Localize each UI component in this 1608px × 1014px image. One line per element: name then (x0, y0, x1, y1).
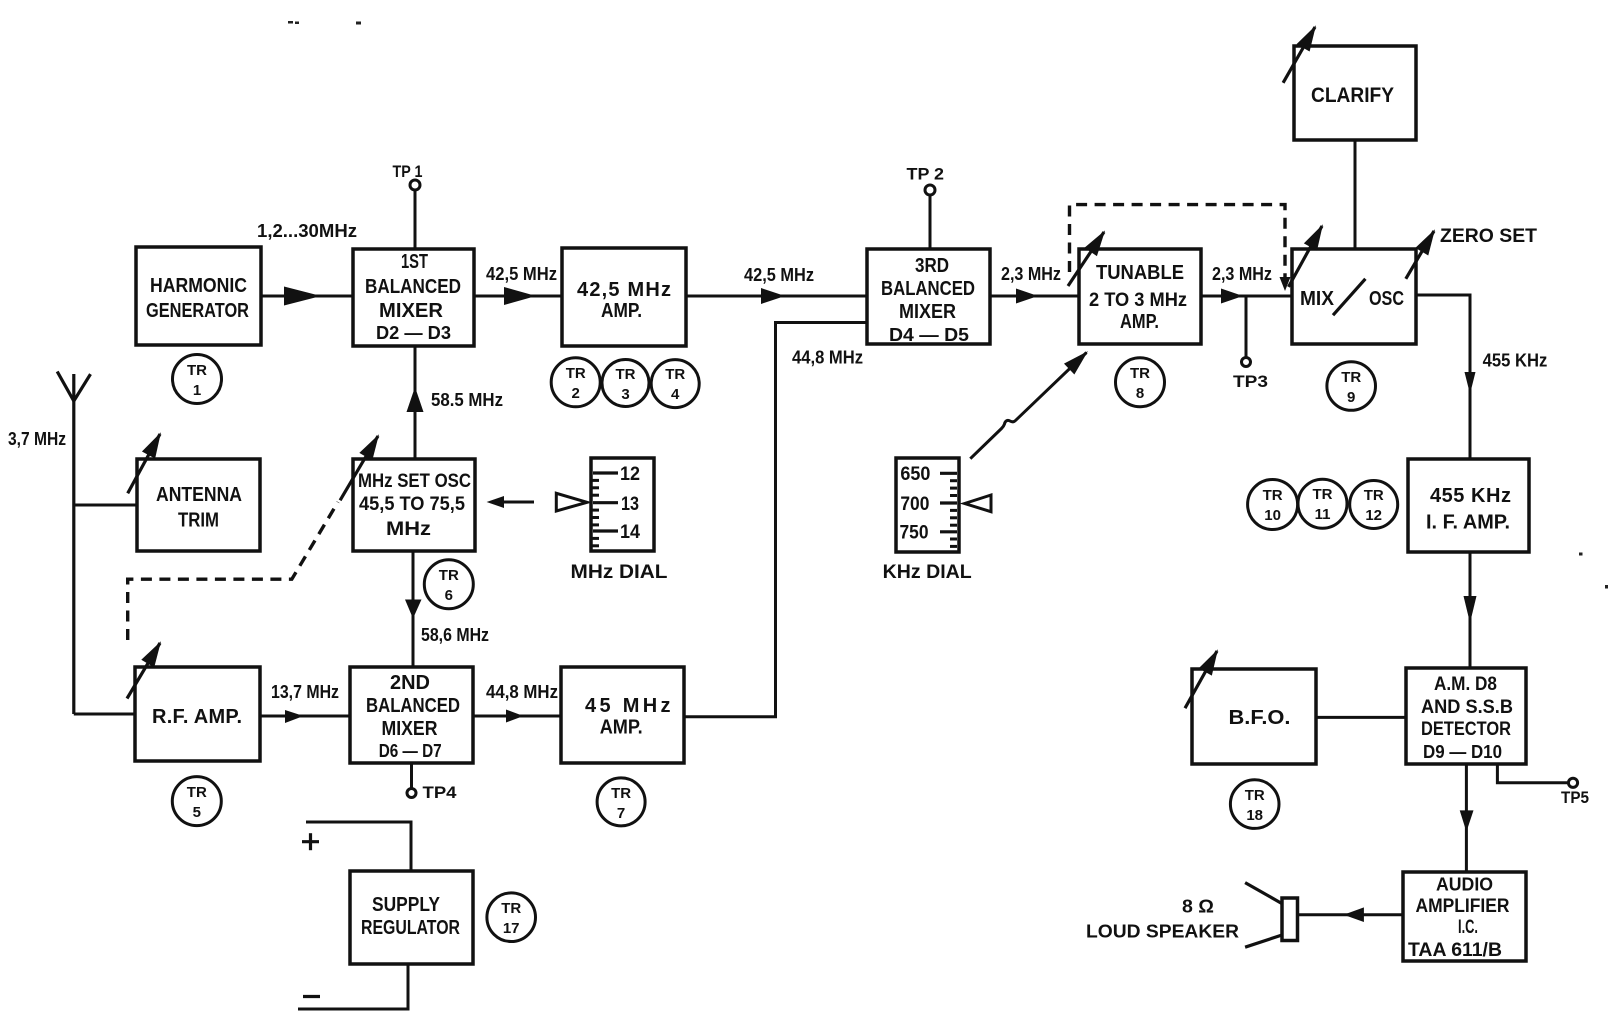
svg-text:DETECTOR: DETECTOR (1421, 719, 1511, 740)
svg-text:3RD: 3RD (915, 255, 949, 277)
transistor circle TR1 (173, 355, 222, 404)
svg-text:I.C.: I.C. (1458, 917, 1478, 938)
test point TP2 (907, 165, 945, 196)
svg-text:TR: TR (1341, 369, 1361, 386)
svg-text:D9 — D10: D9 — D10 (1423, 742, 1502, 762)
MHz dial numbers (620, 464, 640, 543)
svg-text:5: 5 (193, 804, 201, 821)
MHz dial open pointer (556, 493, 587, 511)
svg-text:TR: TR (1364, 487, 1384, 504)
block TUNABLE 2 TO 3 MHz AMP (1079, 249, 1201, 344)
svg-text:1: 1 (193, 382, 201, 399)
svg-text:TR: TR (439, 567, 459, 584)
svg-text:TP4: TP4 (423, 783, 458, 802)
svg-text:A.M. D8: A.M. D8 (1434, 674, 1497, 695)
transistor circle TR9 (1327, 362, 1376, 411)
svg-text:MIXER: MIXER (379, 300, 444, 322)
svg-text:TR: TR (1245, 787, 1265, 804)
svg-text:I. F. AMP.: I. F. AMP. (1426, 512, 1510, 534)
wire tunable amp to mix/osc (1201, 289, 1292, 304)
test point TP5 (1561, 778, 1589, 807)
label 45 MHz AMP (585, 695, 671, 739)
transistor circle TR3 (602, 360, 649, 407)
transistor circle TR18 (1230, 780, 1279, 829)
svg-text:TR: TR (566, 365, 586, 382)
transistor circle TR4 (651, 360, 699, 408)
test point TP3 (1233, 358, 1268, 392)
transistor circle TR17 (487, 893, 536, 942)
svg-text:TP 1: TP 1 (393, 162, 423, 181)
svg-text:LOUD SPEAKER: LOUD SPEAKER (1086, 922, 1239, 942)
svg-text:AMP.: AMP. (600, 717, 643, 739)
svg-text:44,8 MHz: 44,8 MHz (486, 682, 558, 702)
block 2ND BALANCED MIXER D6-D7 (350, 667, 473, 763)
svg-text:AND S.S.B: AND S.S.B (1421, 697, 1513, 718)
transistor circle TR7 (597, 778, 645, 826)
wire TP1 to 1st mixer top (414, 190, 417, 249)
svg-text:42,5 MHz: 42,5 MHz (577, 279, 671, 301)
svg-text:OSC: OSC (1369, 288, 1404, 310)
svg-text:650: 650 (900, 464, 930, 485)
svg-text:AUDIO: AUDIO (1436, 875, 1493, 895)
slash divider in MIX/OSC (1333, 279, 1365, 315)
svg-text:BALANCED: BALANCED (365, 276, 461, 298)
label AUDIO AMPLIFIER I.C. TAA 611/B (1408, 875, 1510, 961)
wire 1st mixer to 42.5 MHz amp (474, 287, 562, 305)
svg-text:3,7 MHz: 3,7 MHz (8, 429, 66, 449)
KHz dial open pointer (965, 495, 991, 512)
wire mix/osc to 455KHz IF amp (1416, 295, 1476, 459)
test point TP1 (393, 162, 423, 190)
wire BFO to detector (1316, 716, 1406, 719)
label SUPPLY REGULATOR (361, 894, 460, 939)
svg-text:MHz: MHz (386, 519, 431, 540)
block 455 KHz I.F. AMP (1408, 459, 1529, 552)
svg-text:TR: TR (187, 362, 207, 379)
dashed loop tunable amp to mix/osc input (1070, 205, 1291, 291)
svg-text:SUPPLY: SUPPLY (372, 894, 441, 916)
svg-text:TR: TR (501, 900, 521, 917)
label 42,5 MHz AMP (577, 279, 671, 322)
wire clarify to mix/osc (1354, 140, 1357, 249)
transistor circle TR5 (172, 777, 221, 826)
scan speck marks (288, 21, 1608, 589)
svg-text:10: 10 (1264, 507, 1281, 524)
label TUNABLE 2 TO 3 MHz AMP (1089, 262, 1187, 333)
wire detector to audio amplifier (1460, 764, 1474, 872)
svg-text:13: 13 (621, 494, 639, 515)
svg-text:ZERO SET: ZERO SET (1440, 226, 1537, 247)
svg-text:TP 2: TP 2 (907, 165, 945, 184)
svg-text:TR: TR (187, 784, 207, 801)
svg-text:3: 3 (621, 386, 629, 403)
svg-text:AMP.: AMP. (601, 300, 642, 322)
loudspeaker symbol (1245, 883, 1297, 948)
svg-text:MIXER: MIXER (382, 718, 438, 740)
wire MHz set osc down to 2nd mixer 58,6MHz (405, 551, 422, 667)
wire supply regulator plus lead (306, 822, 411, 871)
svg-text:1ST: 1ST (401, 251, 428, 273)
variable arrow on TUNABLE amp (1068, 232, 1104, 286)
svg-text:KHz DIAL: KHz DIAL (883, 562, 972, 583)
label ANTENNA TRIM (156, 484, 242, 532)
transistor circle TR8 (1116, 358, 1165, 407)
variable arrow on BFO (1185, 651, 1217, 708)
wire harmonic generator to 1st mixer (261, 287, 353, 306)
wire KHz dial zigzag to tunable amp (970, 353, 1086, 459)
wire TP4 stub (410, 763, 413, 788)
svg-text:MIXER: MIXER (899, 301, 956, 323)
svg-text:42,5 MHz: 42,5 MHz (744, 265, 814, 285)
svg-text:2,3 MHz: 2,3 MHz (1001, 264, 1061, 284)
wire MHz set osc up to 1st mixer 58.5MHz (407, 346, 424, 459)
label MIX OSC (1300, 288, 1404, 310)
svg-text:700: 700 (900, 494, 929, 515)
wire antenna to antenna trim (74, 504, 137, 507)
svg-text:4: 4 (671, 386, 680, 403)
svg-text:BALANCED: BALANCED (366, 695, 460, 717)
svg-text:GENERATOR: GENERATOR (146, 300, 249, 322)
label 2ND BALANCED MIXER D6-D7 (366, 672, 460, 761)
label 1ST BALANCED MIXER D2-D3 (365, 251, 461, 343)
svg-text:TR: TR (1130, 365, 1150, 382)
variable arrow on MHz SET OSC (340, 436, 378, 500)
svg-text:750: 750 (900, 522, 929, 543)
svg-text:D2 — D3: D2 — D3 (376, 323, 451, 343)
test point TP4 (407, 783, 457, 802)
block HARMONIC GENERATOR (136, 247, 261, 345)
variable arrow on MIX/OSC (1289, 226, 1323, 287)
block MHz SET OSC 45,5 TO 75,5 MHz (353, 459, 475, 551)
svg-text:17: 17 (503, 920, 520, 937)
MHz dial scale box (591, 458, 654, 551)
MHz dial pointer arrow to set osc (487, 496, 534, 508)
svg-text:REGULATOR: REGULATOR (361, 917, 460, 939)
svg-text:18: 18 (1246, 807, 1263, 824)
svg-text:42,5 MHz: 42,5 MHz (486, 264, 557, 284)
transistor circle TR10 (1248, 480, 1298, 530)
svg-text:ANTENNA: ANTENNA (156, 484, 242, 506)
block CLARIFY (1294, 46, 1416, 140)
block 45 MHz AMP (561, 667, 684, 763)
wire 42.5 amp to 3rd mixer (686, 288, 867, 304)
svg-text:BALANCED: BALANCED (881, 278, 975, 300)
wire IF amp to detector (1464, 552, 1477, 668)
variable arrow on RF amp (127, 643, 160, 699)
wire 3rd mixer to tunable amp (990, 289, 1079, 304)
svg-text:8: 8 (1136, 385, 1144, 402)
svg-text:TRIM: TRIM (178, 510, 219, 532)
svg-text:CLARIFY: CLARIFY (1311, 84, 1394, 107)
svg-text:D4 — D5: D4 — D5 (889, 325, 969, 345)
block MIX/OSC (1292, 249, 1416, 344)
wire antenna mast (57, 372, 90, 715)
svg-text:455 KHz: 455 KHz (1430, 485, 1511, 507)
block 1ST BALANCED MIXER D2-D3 (353, 249, 474, 346)
KHz dial numbers (900, 464, 931, 543)
variable arrow ZERO SET (1406, 231, 1434, 279)
block B.F.O. (1192, 669, 1316, 764)
wire RF amp to 2nd mixer (260, 710, 350, 723)
variable arrow on CLARIFY (1283, 27, 1315, 83)
svg-text:58.5 MHz: 58.5 MHz (431, 390, 503, 410)
svg-text:TP3: TP3 (1233, 372, 1268, 391)
svg-text:6: 6 (445, 587, 453, 604)
transistor circle TR2 (551, 358, 600, 407)
svg-text:11: 11 (1315, 506, 1331, 523)
label MHz SET OSC 45,5 TO 75,5 MHz (358, 471, 471, 540)
label 455 KHz I.F. AMP (1426, 485, 1511, 534)
wire supply regulator minus lead (298, 964, 408, 1009)
KHz dial scale box (896, 458, 959, 552)
wire 45 MHz amp up to 3rd mixer 44.8MHz (684, 323, 867, 717)
svg-text:TR: TR (611, 785, 631, 802)
svg-text:58,6 MHz: 58,6 MHz (421, 625, 489, 645)
block 3RD BALANCED MIXER D4-D5 (867, 249, 990, 344)
minus symbol (303, 995, 320, 998)
label A.M. D8 AND S.S.B DETECTOR D9-D10 (1421, 674, 1513, 762)
svg-text:2 TO 3 MHz: 2 TO 3 MHz (1089, 290, 1187, 311)
wire TP2 to 3rd mixer top (929, 195, 932, 249)
svg-text:AMP.: AMP. (1120, 311, 1159, 333)
svg-text:2: 2 (572, 385, 580, 402)
svg-text:AMPLIFIER: AMPLIFIER (1416, 896, 1510, 917)
svg-text:8 Ω: 8 Ω (1182, 897, 1214, 917)
variable arrow on ANTENNA TRIM (128, 434, 160, 493)
wire audio amplifier to loudspeaker (1298, 907, 1404, 922)
svg-text:TUNABLE: TUNABLE (1096, 262, 1184, 284)
svg-text:MIX: MIX (1300, 288, 1335, 310)
svg-text:13,7 MHz: 13,7 MHz (271, 682, 339, 702)
svg-text:TAA 611/B: TAA 611/B (1408, 940, 1502, 961)
label 3RD BALANCED MIXER D4-D5 (881, 255, 975, 345)
svg-text:B.F.O.: B.F.O. (1229, 707, 1291, 729)
svg-text:455 KHz: 455 KHz (1483, 351, 1548, 371)
svg-text:MHz DIAL: MHz DIAL (571, 562, 668, 583)
svg-text:45,5 TO 75,5: 45,5 TO 75,5 (359, 494, 465, 515)
svg-text:12: 12 (1365, 507, 1382, 524)
block ANTENNA TRIM (137, 459, 260, 551)
block SUPPLY REGULATOR (350, 871, 473, 964)
transistor circle TR12 (1350, 481, 1398, 529)
svg-text:9: 9 (1347, 389, 1355, 406)
svg-text:12: 12 (620, 464, 640, 485)
svg-text:MHz SET OSC: MHz SET OSC (358, 471, 471, 492)
svg-text:HARMONIC: HARMONIC (150, 275, 247, 297)
svg-text:TR: TR (1313, 486, 1333, 503)
block A.M. D8 AND S.S.B DETECTOR D9-D10 (1406, 668, 1526, 764)
wire 2nd mixer to 45 MHz amp (473, 710, 561, 723)
wire TP3 stub (1245, 296, 1248, 357)
svg-text:TP5: TP5 (1561, 788, 1589, 807)
plus symbol (302, 833, 319, 850)
svg-text:TR: TR (665, 366, 685, 383)
block R.F. AMP (135, 667, 260, 761)
svg-text:TR: TR (616, 366, 636, 383)
label HARMONIC GENERATOR (146, 275, 249, 322)
svg-text:D6 — D7: D6 — D7 (379, 741, 442, 761)
block AUDIO AMPLIFIER I.C. TAA 611/B (1403, 872, 1526, 961)
svg-text:44,8 MHz: 44,8 MHz (792, 347, 863, 367)
svg-text:7: 7 (617, 805, 625, 822)
dashed gang coupling RF amp to MHz set osc (128, 502, 338, 640)
svg-text:2ND: 2ND (390, 672, 430, 694)
svg-text:R.F. AMP.: R.F. AMP. (152, 706, 242, 728)
svg-text:2,3 MHz: 2,3 MHz (1212, 264, 1272, 284)
svg-text:14: 14 (620, 522, 640, 543)
block 42,5 MHz AMP (562, 248, 686, 346)
transistor circle TR11 (1298, 479, 1347, 528)
transistor circle TR6 (424, 560, 473, 609)
svg-text:1,2...30MHz: 1,2...30MHz (257, 221, 357, 241)
wire detector to TP5 (1497, 764, 1567, 783)
wire antenna to RF amp (74, 713, 135, 716)
svg-text:TR: TR (1263, 487, 1283, 504)
